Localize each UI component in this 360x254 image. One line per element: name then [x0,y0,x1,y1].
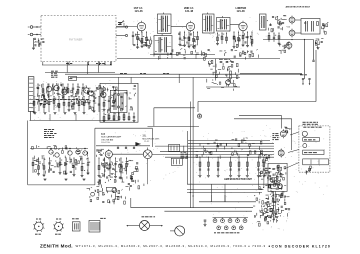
test point TP2 [308,78,310,80]
filter capacitor C41 [311,21,313,32]
main AVC rail [70,76,240,78]
power transformer circle [140,221,150,231]
matrix column ground 7 [257,175,260,177]
RF tuned circuits [46,100,48,103]
scan noise mplx [270,154,273,157]
AF transistor Q11 [76,150,80,154]
svg-text:FM TUNER: FM TUNER [69,38,82,42]
scan noise top [141,38,144,41]
AGC label marks [118,22,122,24]
V5 input parts [96,149,98,151]
RF upper hangers [37,84,39,95]
heater bus return [164,210,252,212]
fuse box [106,187,115,191]
stereo jack wire lower [234,118,292,120]
audio takeoff network [322,24,324,26]
tube base diagram 6X8 [35,222,44,231]
wire tuner drop d [98,62,100,73]
balun capacitor C1 [39,42,42,44]
matrix top components [241,149,242,150]
test point labels [300,74,304,76]
sub-carrier hangers [98,158,100,175]
line cord filter [69,76,77,80]
tone pot P1 [270,178,275,183]
ratio detector transformer T5 [260,14,267,30]
svg-text:OSC NE AM: OSC NE AM [101,138,113,141]
wire to multiplex takeoff [154,107,195,109]
audio output bus [263,39,314,41]
wire B+ sub link [206,86,240,88]
V2 side parts [181,39,184,41]
matrix divider column 8 [263,157,265,175]
wire B+ upper link [215,59,217,81]
input arrow [135,142,140,146]
wire tuner drop e [111,62,113,66]
phono motor circle [175,226,185,236]
tuner output terminal arrows [116,26,125,28]
sub-carrier plate wire [112,153,143,155]
svg-text:100-1700: 100-1700 [101,142,110,144]
matrix column ground 8 [262,175,265,177]
buffer transistor Q5 [89,91,94,96]
oscillator transformer [110,90,127,112]
AM detector tube V11 [286,43,292,49]
svg-text:AM/FM DETECTOR UNIT: AM/FM DETECTOR UNIT [224,178,252,181]
RF transistor Q1 [46,86,51,91]
output grounds [265,216,268,218]
multiplex detector tube V6 [143,150,152,159]
matrix column ground 4 [229,175,232,177]
matrix resistor block B [171,158,182,165]
output pots [264,208,268,212]
oscillator trimmer pot [112,188,117,193]
tuner output wire e [110,62,112,66]
wire tuner to V1 grid [116,26,137,28]
line filter cap [204,219,207,221]
audio output tube V7 [280,131,286,137]
tuner wire labels [66,63,69,65]
coupling capacitor C45 [312,59,314,61]
filter capacitor stack [254,215,256,218]
IF lower parts row [171,55,173,59]
RF bottom bus [30,120,119,122]
RF lower hangers [33,97,35,112]
decoder detector box [303,159,329,165]
power transformer lead right [150,225,162,227]
grid wire hanging caps [117,147,119,149]
right label block [272,133,274,135]
output cathode cap [267,201,270,203]
multiplex bus 1 [188,140,270,142]
ratio detector network [280,28,282,30]
speaker jack J5 [197,114,201,118]
osc trimmer marks [134,84,136,86]
wire riser x225 [224,184,226,202]
motor pilot lamp [302,131,307,136]
svg-text:121-46: 121-46 [135,9,144,13]
output stage parts [271,196,273,200]
wire riser x211 [210,184,212,202]
sub-carrier lower parts [136,162,138,164]
2nd IF amplifier tube V2 [186,22,194,30]
multiplex bus 3b [188,148,274,150]
svg-text:WT1971-3, ML2601-3, ML2606-3,: WT1971-3, ML2601-3, ML2606-3, ML2607-3, … [76,244,266,248]
antenna connector J1 [30,26,33,29]
limiter grid hangers [217,33,219,43]
AF transistor Q12 [83,151,87,155]
detector unit bottom bus [187,183,280,185]
power entry parts [104,194,105,195]
RF mid bus [45,72,115,74]
audio section box left edge [197,102,199,113]
matrix divider column 4 [230,157,232,175]
interstage coupling can T4 [217,18,231,32]
RF section label [51,70,54,72]
wire osc box feed [130,77,132,83]
sub-carrier components [121,178,123,182]
svg-text:121-48: 121-48 [185,9,194,13]
audio section box bottom [198,101,316,103]
motor control box [303,138,320,142]
tone label block [265,167,268,169]
detector diode V10b [289,30,295,36]
RF to rails bridge [117,77,119,120]
matrix column ground 5 [238,175,241,177]
heater bus riser 1 [210,195,212,202]
left riser 2 [189,102,191,208]
power resistor R60 [230,71,232,79]
output riser A [272,191,274,222]
stereo jack wire upper [239,115,282,117]
AF hangers [32,158,34,173]
wire detector bus drop 2 [313,40,315,61]
audio section box right edge [315,50,317,102]
svg-text:CON DECODER KL1720: CON DECODER KL1720 [272,244,331,248]
AF input bus [30,148,88,150]
volume control cluster [261,171,263,173]
2nd IF transformer T3 [203,14,215,33]
interlock socket [72,222,80,231]
sub-carrier grid wire [96,145,150,147]
de-emphasis filter box [301,19,320,35]
svg-text:AM DETECTOR IN 96U7: AM DETECTOR IN 96U7 [286,5,311,8]
tone control box [268,163,287,191]
V7 plate capacitors [284,126,287,128]
decoder dashed box [299,126,330,172]
filter capacitor C40 [305,21,307,32]
AF ground marks [44,178,47,180]
V3 side parts [244,41,246,43]
AGC transistor Q6 [101,92,106,97]
electrolytic cap C60 ticks [220,61,223,63]
decoupling resistor R7 [150,40,152,44]
rectifier bottom labels [214,232,216,234]
screen bypass ticks [159,55,161,59]
regulator transistor Q7 [226,80,231,85]
decoder lower marks [306,170,308,173]
rectifier bus [213,217,249,219]
wire B+ bend [240,73,302,75]
decoder lead 1 [290,132,299,135]
multiplex bus 2 [188,142,274,144]
tuner output wire d [104,62,106,66]
volume control drop 1 [257,176,259,187]
heater bus riser 2 [224,195,226,202]
de-emphasis labels [181,151,183,153]
matrix divider column 1 [199,157,201,175]
antenna rod ground lead [29,111,31,120]
rectifier row 1 [213,219,217,223]
AF bottom bus [28,184,95,186]
B+ decoupling stack [217,73,220,75]
volume control drop 2 [263,176,265,189]
RF transistor Q2 [54,85,59,90]
svg-text:ZENITH Mod.: ZENITH Mod. [40,243,73,248]
AF amp components [84,170,85,171]
multiplex bus 5 [152,153,274,155]
matrix divider column 5 [238,157,240,175]
heater riser [130,198,132,208]
motor relay [303,144,307,148]
wire detector bus drop 1 [304,40,306,80]
tuner output wire b [88,62,90,66]
antenna connector J2 [30,33,33,36]
V1 hanging components [132,32,134,45]
multiplex bus 4 [160,151,274,153]
svg-text:SUB CARRIER AMP: SUB CARRIER AMP [101,136,122,139]
power transformer lead left [128,225,140,227]
3rd IF transformer T2 [154,36,172,55]
multiplex bus 6 [165,156,274,158]
wire V10a to filter [295,19,301,21]
wire tuner drop c [87,62,89,75]
main B+ rail [65,73,302,75]
sub-carrier section box [95,127,152,129]
matrix divider column 3 [217,157,219,175]
phono motor lead [170,230,175,232]
V3 hanging components [233,32,235,47]
heater bus upper [199,201,256,203]
V2 hanging components [179,32,181,44]
left riser 1 [187,131,189,184]
RF bus risers [49,114,51,121]
scan noise right [326,185,329,188]
AF amp label block [44,129,47,131]
matrix divider column 2 [207,157,209,175]
AF transistor Q8 [49,150,53,154]
matrix resistor block A [169,144,180,151]
tuner output wire a [68,62,70,66]
ground at antenna network [32,47,35,49]
tone pot P2 [278,184,283,189]
tube base diagram 6U8 [55,222,63,230]
antenna matching network [34,44,36,46]
wire T1 to V2 [171,26,186,28]
IF B+ bus [117,58,280,60]
dial lamp coil [89,221,100,233]
V11 grid components [280,51,282,54]
1st IF amplifier tube V1 [137,22,145,30]
rectifier row 2 [217,226,221,230]
B plus vertical feed [178,74,180,83]
matrix column ground 2 [207,175,210,177]
left riser 3 [192,77,194,207]
RF label row [36,99,39,101]
V11 load resistor network [318,41,320,45]
svg-text:21-32: 21-32 [144,141,150,143]
FM tuner dashed enclosure box [41,16,116,62]
detector unit lower bus 3 [187,192,262,194]
converter box [303,150,324,154]
matrix divider column 6 [246,157,248,175]
detector unit lower bus 2 [187,189,262,191]
decoder lead 3 [284,163,299,170]
decoder title [303,126,306,128]
svg-text:6X8: 6X8 [101,134,106,136]
1st IF transformer T1 [158,14,172,34]
scan noise left [81,86,84,89]
heater bus main [131,207,253,209]
multiplex bus 3 [155,145,274,147]
mixer transistor Q3 [62,89,67,94]
caption separator dot [269,246,270,247]
test point TP1 [302,78,304,80]
matrix divider column 7 [257,157,259,175]
output riser B [274,191,276,218]
RF top bus [42,64,112,66]
wire AF left drop [27,121,29,185]
bus tiny labels [120,73,123,75]
socket label [72,218,74,220]
AF transistor Q10 [68,151,72,155]
IF screen bus [150,54,215,56]
audio coupling bus [148,125,200,127]
audio driver tube V8 [278,150,284,156]
ratio det hangers [268,33,270,42]
V1 side parts [147,45,149,47]
decoder lead 2 [288,150,299,153]
pilot lamp [91,192,95,196]
AF transistor Q9 [55,153,59,157]
matrix column ground 6 [246,175,249,177]
svg-text:121-48: 121-48 [237,9,246,13]
tone control parts [280,167,282,170]
matrix feed wire [183,146,185,152]
V6 output drop [147,161,149,184]
stereo note text [303,121,306,123]
scan noise power [278,199,281,202]
wire tuner drop b [66,62,68,73]
FM antenna rod [28,77,34,112]
matrix column ground 3 [217,175,220,177]
muting switch S1 [120,22,123,25]
oscillator coil box [100,83,138,122]
mixer components [81,101,83,104]
RF ground marks [34,112,37,114]
wire T4 to V3 [230,24,239,26]
matrix column ground 1 [199,175,202,177]
osc box bottom comb [103,113,105,120]
oscillator transistor Q4 [84,88,89,93]
coil label [100,217,103,219]
wire V10b to filter [295,32,301,34]
detector diode V10a [289,17,295,23]
wire tuner drop a [42,62,44,66]
tuner output wire c [99,62,101,66]
power transformer label [142,216,145,218]
filter resistor R40 [317,22,319,26]
output transformer box [271,185,282,189]
sub-carrier amp tube V5 [105,151,112,158]
limiter tube V3 [239,22,247,30]
